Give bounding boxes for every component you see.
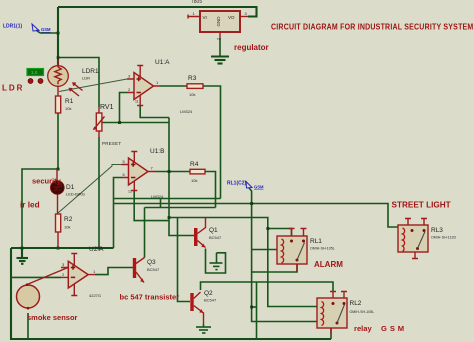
svg-text:LM324: LM324 <box>180 109 193 114</box>
svg-text:security: security <box>32 177 62 186</box>
wire: Q2 collector run y=282 to RL2 pin <box>201 282 334 291</box>
svg-text:Q2: Q2 <box>204 290 213 297</box>
svg-text:GSM: GSM <box>254 185 264 190</box>
wire: RL1 coil feed y=249.5 <box>252 249 277 251</box>
svg-text:4227G: 4227G <box>89 293 101 298</box>
wire: U2:A output jog to Q3 base <box>95 268 133 275</box>
wire: net tap stub to LDR1(1) label <box>36 30 58 33</box>
resistor R1 <box>56 96 61 113</box>
svg-text:RL2: RL2 <box>350 300 362 307</box>
junction: long vertical crossing U1:B output <box>168 170 171 173</box>
smoke sensor <box>17 285 40 308</box>
svg-text:LDR1(1): LDR1(1) <box>3 24 23 30</box>
wire: RL1 contact pin feed <box>268 229 292 237</box>
wire: rail B y=203.5 street-light net to RL3 coil <box>114 204 399 228</box>
svg-text:RL3: RL3 <box>431 227 443 234</box>
svg-text:U2:A: U2:A <box>89 246 104 253</box>
wire: connector rail A to rail C <box>160 199 162 208</box>
wire: rail C y=207.5 R4 to Q3 collector column <box>145 207 216 209</box>
wire: RL2 bottom pin to bottom rail <box>330 328 332 339</box>
svg-text:GSM: GSM <box>41 27 51 32</box>
op-amp U1:A <box>127 66 160 106</box>
svg-text:LM324: LM324 <box>151 194 164 199</box>
wire: LDR column vertical x=58 (top rail to LDR) <box>57 7 59 66</box>
svg-text:RL1(C2): RL1(C2) <box>227 181 247 187</box>
svg-text:PRESET: PRESET <box>102 141 121 146</box>
wire: U1:B output to R4 <box>155 171 190 173</box>
svg-text:10k: 10k <box>65 106 71 111</box>
junction: LDR top branch <box>57 56 60 59</box>
svg-text:VO: VO <box>228 15 235 20</box>
junction: RL1C2 crosses rail B <box>250 202 253 205</box>
svg-text:VI: VI <box>203 15 207 20</box>
svg-text:regulator: regulator <box>234 43 269 52</box>
svg-text:OMIH-SH-105L: OMIH-SH-105L <box>350 310 375 314</box>
svg-text:7805: 7805 <box>191 0 202 5</box>
svg-text:G S M: G S M <box>381 324 405 333</box>
wire: RV1 bottom to ground bus <box>98 137 100 248</box>
svg-text:BC547: BC547 <box>209 235 222 240</box>
svg-text:Q1: Q1 <box>209 227 218 234</box>
svg-text:10k: 10k <box>189 92 195 97</box>
wire: U1:A pin2 to RV1 wiper <box>102 93 169 123</box>
svg-text:RL1: RL1 <box>310 238 322 245</box>
svg-text:CIRCUIT DIAGRAM FOR INDUSTRIAL: CIRCUIT DIAGRAM FOR INDUSTRIAL SECURITY … <box>271 22 473 32</box>
svg-text:ALARM: ALARM <box>314 260 343 269</box>
svg-text:bc 547 transister: bc 547 transister <box>120 293 180 302</box>
resistor R4 <box>190 169 205 174</box>
wire: R1 bottom down, jog left, down to ground bus <box>22 113 58 248</box>
svg-text:12: 12 <box>128 190 132 194</box>
wire: R4 right drop to rail C <box>205 172 216 208</box>
LED D1 <box>51 181 65 195</box>
op-amp U1:B <box>122 152 156 191</box>
svg-text:11: 11 <box>135 100 139 104</box>
svg-text:BC547: BC547 <box>204 298 217 303</box>
wire: smoke sensor bottom to bottom rail <box>27 313 29 339</box>
junction: ground on bus <box>21 247 24 250</box>
wire: D1 anode pin <box>56 169 58 182</box>
ground (Q1 emitter) <box>210 253 223 270</box>
net label LDR1(1) <box>3 24 51 33</box>
svg-text:OMIH-SH-105L: OMIH-SH-105L <box>310 247 335 251</box>
relay RL3 <box>398 218 428 259</box>
junction: RV1 column on bus <box>98 247 101 250</box>
svg-text:R4: R4 <box>190 161 199 168</box>
net label RL1(C2) <box>227 181 264 190</box>
svg-text:R2: R2 <box>64 216 73 223</box>
wire: U1:B pin12 drop <box>134 191 169 221</box>
ground (Q2 emitter) <box>196 324 211 333</box>
ground (regulator) <box>211 57 229 64</box>
wire: Q1 collector rail y=217.5 down to RL2 coil <box>169 218 317 307</box>
LDR actuator buttons <box>28 79 33 84</box>
wire: R2 bottom to ground bus <box>57 232 59 248</box>
pin 3 regulator output stub <box>240 16 248 18</box>
svg-text:10k: 10k <box>64 225 70 230</box>
transistor Q2 <box>190 292 203 324</box>
pin 2 regulator ground stub <box>219 32 221 40</box>
wire: rail A y=198.5 (pin6 loop to R3 drop) <box>114 198 221 200</box>
resistor R2 <box>56 214 61 232</box>
junction: R1/D1 node <box>57 168 60 171</box>
relay RL1 <box>277 228 307 272</box>
wire: net RL1(C2) tap diagonal and vertical x=251.6 <box>249 188 317 322</box>
svg-text:LDR: LDR <box>2 84 24 93</box>
svg-text:relay: relay <box>354 324 373 333</box>
wire: diagonal LDR divider node to U1:A pin3 <box>59 79 127 92</box>
wire: diagonal D1/R2 node to U1:B pin5 <box>58 165 122 214</box>
svg-text:U1:B: U1:B <box>150 148 164 155</box>
op-amp U2:A <box>61 254 95 296</box>
preset RV1 <box>93 107 105 137</box>
transistor Q3 <box>133 258 145 283</box>
junction: R2 on bus <box>57 247 60 250</box>
svg-text:LDR1: LDR1 <box>82 68 99 75</box>
wire: Q2 base feed x=177.5 <box>178 218 191 302</box>
wire: U1:B pin6 loop left vertical to bus <box>114 178 122 249</box>
transistor Q1 <box>194 218 206 248</box>
svg-text:smoke sensor: smoke sensor <box>27 313 78 322</box>
wire: R3 output drop x=220.5 <box>203 86 221 199</box>
wire: +V top rail from LDR column to regulator VO <box>58 7 257 17</box>
svg-text:D1: D1 <box>66 184 75 191</box>
svg-text:GND: GND <box>216 16 221 27</box>
svg-text:U1:A: U1:A <box>155 59 170 66</box>
ground (left bus) <box>17 248 29 264</box>
relay RL2 <box>317 291 347 334</box>
svg-text:R1: R1 <box>65 98 74 105</box>
wire: Q1 emitter hook around ground <box>206 249 226 274</box>
pin 1 regulator input stub <box>188 15 200 19</box>
wire: ground bus y=248 <box>11 247 114 249</box>
wire: V_b x=256.5 drop to bottom rail <box>256 282 258 339</box>
wire: LDR bottom to R1 top (pin) <box>57 87 59 97</box>
svg-text:1.0: 1.0 <box>31 70 38 75</box>
wire: RL1 common bottom run y=272 <box>252 264 297 272</box>
svg-text:OMIH-SH-112D: OMIH-SH-112D <box>431 236 456 240</box>
svg-text:LED-BIRG: LED-BIRG <box>66 192 85 197</box>
svg-text:ir led: ir led <box>20 201 40 210</box>
junction: rail tap on x=169 <box>168 216 171 219</box>
LDR1 <box>48 60 83 96</box>
regulator U3 7805 <box>191 0 240 32</box>
wire: U1:A pin11 drop to long vertical x=169 <box>140 106 169 118</box>
svg-text:R3: R3 <box>188 75 197 82</box>
wire: long vertical x=169 down to Q1 base <box>169 118 194 236</box>
LDR brightness display <box>27 69 44 76</box>
junction: tap on LDR column <box>57 32 60 35</box>
wire: D1 cathode to R2 <box>57 194 59 214</box>
svg-text:Q3: Q3 <box>147 259 156 266</box>
wire: U2:A pin2 to left rail <box>11 276 61 278</box>
svg-text:BC547: BC547 <box>147 267 160 272</box>
wire: smoke sensor to U2:A pin3 diagonal <box>27 268 68 285</box>
resistor R3 <box>187 84 203 89</box>
RV1 wiper arrow <box>94 117 105 130</box>
wire: U1:A out to R3 <box>160 85 187 87</box>
svg-text:STREET LIGHT: STREET LIGHT <box>392 201 451 210</box>
svg-text:LDR: LDR <box>82 76 90 81</box>
svg-text:RV1: RV1 <box>100 104 114 111</box>
junction: RL1 pin tap <box>266 227 269 230</box>
wire: left rail down x=11 and bottom rail y=339 <box>11 248 331 339</box>
svg-text:10k: 10k <box>191 178 197 183</box>
wire: Q3 collector column x=144.5 <box>144 208 146 258</box>
LDR light arrows <box>70 83 83 96</box>
junction: V_a to V_b jog y=307 <box>252 306 257 308</box>
wire: branch LDR top node to RV1 top <box>58 58 99 108</box>
